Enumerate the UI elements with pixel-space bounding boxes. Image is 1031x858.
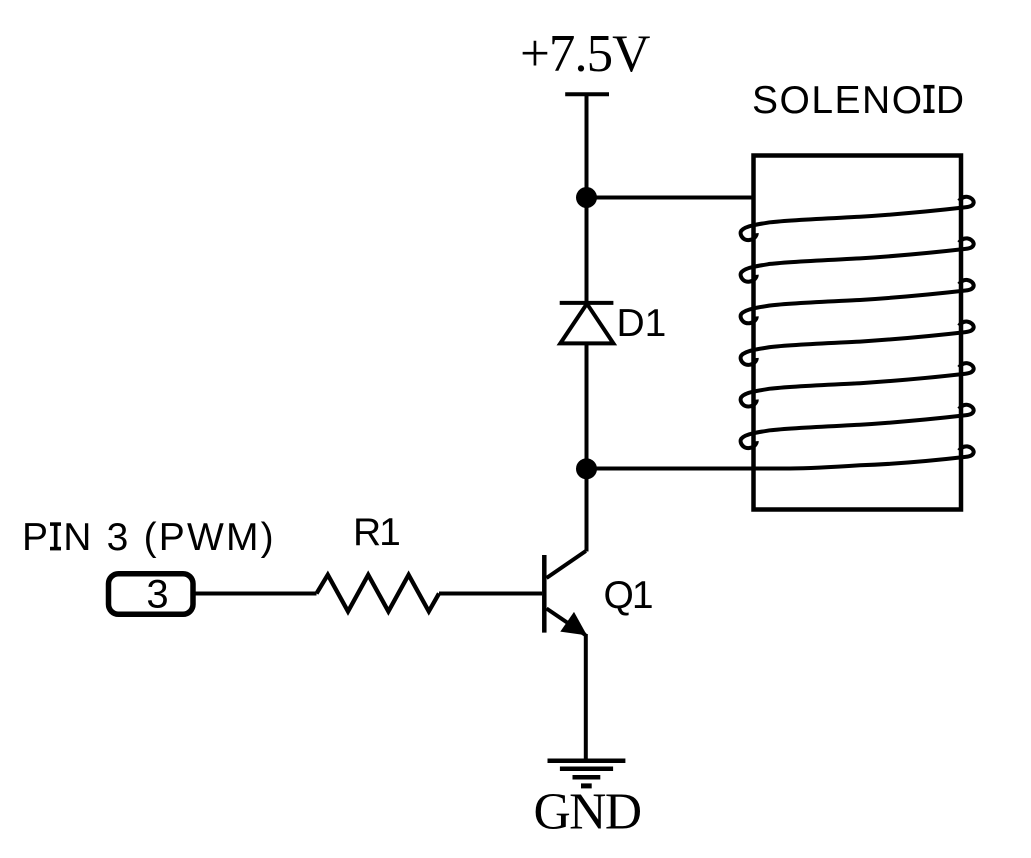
svg-text:Q1: Q1 [604,574,652,617]
diode D1 [560,303,614,344]
solenoid coil turn 3 [741,280,974,323]
wire R1 to Q1 base [439,592,542,596]
svg-text:3: 3 [146,572,168,616]
power +7.5V rail symbol [565,92,609,96]
wire +7.5V rail to node A [585,94,589,197]
junction node A [576,187,597,208]
solenoid L1 body [754,156,962,510]
pin 3 connector [109,574,194,615]
wire node B to Q1 collector [585,469,589,552]
wire node A to solenoid top [587,196,754,200]
solenoid coil turn 2 [741,238,974,281]
svg-text:+7.5V: +7.5V [520,25,650,83]
solenoid coil turn 5 [741,363,974,406]
solenoid coil turn 1 [741,197,974,240]
transistor Q1 emitter arrow [560,612,587,636]
ground [548,761,626,786]
transistor Q1 base bar [542,555,547,633]
svg-text:D1: D1 [617,302,667,345]
solenoid coil turn 4 [741,322,974,365]
junction node B [576,458,597,479]
solenoid coil turn 6 [741,405,974,448]
wire node A to diode D1 cathode [585,198,589,303]
svg-text:R1: R1 [353,511,399,554]
resistor R1 [317,575,440,612]
wire D1 anode to node B [585,343,589,468]
solenoid coil turn 7 [755,446,974,468]
wire Q1 emitter to ground [584,634,588,761]
transistor Q1 collector lead [547,551,586,578]
transistor Q1 emitter lead [547,609,586,636]
wire pin 3 to R1 [193,592,317,596]
wire node B to solenoid bottom [587,467,757,471]
svg-text:GND: GND [533,784,640,841]
